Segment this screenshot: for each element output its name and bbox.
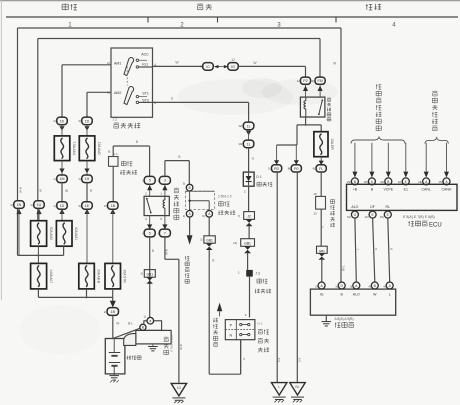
svg-text:31(: 31( (347, 215, 351, 219)
svg-text:PD: PD (274, 167, 279, 171)
svg-text:1B: 1B (111, 310, 116, 314)
svg-text:1D: 1D (85, 119, 90, 123)
svg-text:A 8(A) A 9(B): A 8(A) A 9(B) (335, 317, 354, 321)
svg-text:33(: 33( (380, 215, 384, 219)
svg-text:6(: 6( (104, 204, 107, 208)
svg-text:D 1: D 1 (256, 175, 261, 179)
svg-text:1M: 1M (60, 177, 65, 181)
svg-text:16: 16 (313, 192, 317, 196)
svg-text:IC: IC (206, 65, 210, 69)
svg-text:1(: 1( (104, 310, 107, 314)
svg-text:1N: 1N (17, 203, 22, 207)
svg-text:3(: 3( (78, 204, 81, 208)
svg-text:ALO: ALO (351, 205, 358, 209)
svg-text:3: 3 (164, 179, 166, 183)
svg-text:1G: 1G (177, 386, 182, 390)
svg-text:B: B (389, 248, 393, 250)
svg-text:GB1: GB1 (206, 238, 213, 242)
svg-text:1D: 1D (60, 119, 65, 123)
svg-text:1L: 1L (247, 124, 251, 128)
svg-text:(: ( (158, 231, 159, 235)
svg-text:10(: 10( (398, 180, 402, 184)
svg-text:1 2: 1 2 (113, 118, 118, 122)
svg-text:AM2: AM2 (114, 91, 121, 95)
svg-text:O: O (354, 213, 357, 217)
svg-text:ST2: ST2 (142, 98, 149, 102)
svg-text:ST1: ST1 (142, 91, 149, 95)
svg-text:13(: 13( (238, 142, 242, 146)
svg-text:E 5(A) E 7(B) E 6(B): E 5(A) E 7(B) E 6(B) (403, 215, 435, 219)
svg-text:2(: 2( (107, 61, 110, 65)
svg-text:7(: 7( (238, 214, 241, 218)
svg-text:1D: 1D (60, 204, 65, 208)
svg-text:4(: 4( (78, 119, 81, 123)
svg-text:24(: 24( (418, 180, 422, 184)
svg-text:1(: 1( (144, 315, 147, 319)
svg-text:5: 5 (149, 231, 151, 235)
svg-text:B: B (136, 140, 138, 144)
svg-text:1(: 1( (200, 238, 203, 242)
svg-text:B: B (212, 259, 214, 263)
svg-text:15A AM2: 15A AM2 (97, 142, 101, 155)
svg-text:W: W (116, 322, 119, 326)
svg-text:15A EFI: 15A EFI (330, 138, 334, 150)
svg-text:FL: FL (319, 167, 323, 171)
svg-text:L: L (238, 270, 240, 274)
svg-text:(: ( (158, 179, 159, 183)
svg-text:W-B: W-B (19, 187, 23, 193)
svg-text:1E: 1E (85, 204, 90, 208)
svg-text:22(: 22( (380, 180, 384, 184)
svg-text:AM1: AM1 (114, 61, 121, 65)
svg-text:CANH: CANH (442, 188, 452, 192)
svg-text:RL: RL (386, 205, 391, 209)
svg-text:4(: 4( (383, 285, 386, 289)
svg-text:S 7(A) S 9(B): S 7(A) S 9(B) (170, 335, 174, 352)
svg-text:+B: +B (353, 188, 358, 192)
svg-text:W: W (333, 62, 336, 66)
svg-text:40A AM1: 40A AM1 (74, 227, 78, 240)
svg-text:ACC: ACC (141, 53, 149, 57)
svg-text:(: ( (142, 231, 143, 235)
svg-text:3(: 3( (183, 181, 186, 185)
svg-text:1(: 1( (335, 285, 338, 289)
svg-text:2(: 2( (315, 285, 318, 289)
svg-text:15(: 15( (438, 180, 442, 184)
svg-text:3(: 3( (350, 285, 353, 289)
svg-text:VCPE: VCPE (384, 188, 394, 192)
svg-text:1(: 1( (312, 79, 315, 83)
svg-text:W: W (65, 189, 68, 193)
svg-text:2(: 2( (53, 119, 56, 123)
svg-text:1(: 1( (53, 204, 56, 208)
svg-text:30A AB-B: 30A AB-B (97, 269, 101, 284)
svg-text:14(: 14( (233, 241, 237, 245)
svg-text:4: 4 (392, 22, 396, 29)
svg-text:12: 12 (231, 58, 235, 62)
svg-text:2(: 2( (141, 272, 144, 276)
svg-text:IG: IG (320, 292, 324, 296)
svg-text:1(: 1( (78, 177, 81, 181)
svg-text:L: L (389, 292, 391, 296)
svg-text:N 1: N 1 (258, 321, 263, 325)
svg-text:a: a (149, 319, 151, 323)
svg-text:ECU: ECU (429, 222, 442, 228)
svg-text:5(: 5( (108, 150, 111, 154)
svg-text:DF: DF (370, 205, 375, 209)
svg-text:1(: 1( (53, 177, 56, 181)
svg-text:6: 6 (154, 101, 156, 105)
svg-text:1(: 1( (268, 167, 271, 171)
svg-text:W-L: W-L (342, 265, 346, 271)
svg-text:30A STR: 30A STR (123, 270, 127, 284)
svg-text:W-B: W-B (179, 344, 183, 350)
svg-text:J 3: J 3 (255, 271, 260, 275)
svg-text:GB1: GB1 (244, 242, 251, 246)
svg-text:L: L (278, 385, 280, 389)
svg-text:7.5A AM1: 7.5A AM1 (72, 141, 76, 155)
svg-text:1(: 1( (297, 79, 300, 83)
svg-text:P2: P2 (303, 79, 307, 83)
svg-text:b: b (371, 180, 373, 184)
svg-text:FM: FM (317, 79, 322, 83)
svg-text:50A AM2: 50A AM2 (49, 227, 53, 240)
svg-text:20(: 20( (364, 180, 368, 184)
svg-text:N: N (229, 334, 232, 338)
svg-text:5 9: 5 9 (277, 357, 281, 362)
svg-text:5: 5 (149, 179, 151, 183)
svg-text:BL: BL (295, 385, 299, 389)
svg-text:IG1: IG1 (142, 63, 148, 67)
svg-text:GB1: GB1 (147, 272, 154, 276)
svg-text:23(: 23( (347, 180, 351, 184)
svg-text:5 9: 5 9 (297, 357, 301, 362)
svg-text:Y: Y (321, 226, 325, 228)
svg-text:CANL: CANL (422, 188, 431, 192)
svg-text:B: B (152, 249, 154, 253)
svg-text:1 4: 1 4 (113, 152, 118, 156)
svg-text:G: G (171, 97, 174, 101)
svg-text:ALO: ALO (353, 292, 360, 296)
svg-text:P0: P0 (294, 167, 298, 171)
svg-text:B-L: B-L (128, 322, 133, 326)
svg-text:1(: 1( (10, 203, 13, 207)
svg-text:IG: IG (231, 65, 235, 69)
svg-text:1H: 1H (85, 177, 90, 181)
svg-text:1(: 1( (107, 91, 110, 95)
svg-text:GB1: GB1 (319, 249, 325, 253)
svg-text:13: 13 (313, 211, 317, 215)
svg-text:1U: 1U (37, 203, 42, 207)
svg-text:J2: J2 (247, 215, 251, 219)
svg-text:E1: E1 (404, 188, 408, 192)
svg-text:W: W (39, 189, 43, 192)
svg-text:6(: 6( (313, 167, 316, 171)
svg-text:B: B (178, 155, 180, 159)
svg-text:140A ALT: 140A ALT (49, 269, 53, 283)
svg-text:(: ( (142, 179, 143, 183)
svg-text:1(: 1( (30, 203, 33, 207)
svg-text:7: 7 (164, 231, 166, 235)
svg-text:8(: 8( (288, 167, 291, 171)
svg-text:W-B: W-B (165, 249, 169, 255)
svg-text:1(: 1( (183, 214, 186, 218)
svg-text:1B: 1B (111, 204, 116, 208)
svg-text:1L: 1L (247, 142, 251, 146)
svg-text:2 50A 2 0: 2 50A 2 0 (218, 195, 232, 199)
svg-text:4(: 4( (368, 285, 371, 289)
svg-text:9(: 9( (202, 214, 205, 218)
svg-text:12(: 12( (238, 124, 242, 128)
svg-text:10(: 10( (365, 215, 369, 219)
